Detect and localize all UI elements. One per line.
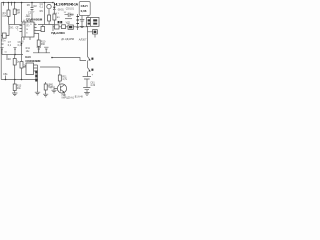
IC DD1 (22, 22, 34, 37)
ground G5 (43, 94, 48, 97)
resistor R8 (13, 9, 16, 15)
capacitor C15 (13, 47, 16, 54)
caps rail mid (33, 52, 50, 54)
svg-text:4-49: 4-49 (90, 85, 95, 87)
svg-text:В1 6-4К: В1 6-4К (75, 96, 84, 98)
svg-text:1М: 1М (33, 5, 36, 8)
node A (8, 2, 10, 4)
resistor R3 (14, 55, 16, 80)
resistor R1 (7, 10, 10, 16)
ground G4 (35, 92, 40, 95)
node B (14, 2, 16, 4)
relay K1 (87, 16, 89, 18)
resistor R13 (14, 80, 16, 85)
connector X2 (37, 65, 39, 92)
wire mid bus (38, 24, 55, 26)
node K (21, 79, 23, 81)
diode VD1 (53, 3, 55, 7)
meter PA1 (88, 27, 93, 57)
wire y27 bus (53, 26, 88, 28)
wire hline54 (2, 54, 23, 56)
svg-text:1 0 0 1: 1 0 0 1 (53, 13, 60, 15)
wire left border (0, 3, 2, 80)
wire R10 down (38, 46, 40, 53)
wire R1 string (8, 3, 10, 25)
box B1 top right (79, 2, 90, 16)
wire top rail (1, 2, 53, 4)
crystal ZQ1 (47, 4, 51, 8)
wire R11 feed (40, 67, 60, 75)
capacitor C5 (65, 13, 74, 17)
wire stub B3 (11, 3, 13, 6)
transistor VT3 (57, 84, 66, 93)
node J (14, 79, 16, 81)
wire emitter left (54, 89, 57, 91)
node D (31, 2, 33, 4)
node I (5, 79, 7, 81)
node F (52, 2, 54, 4)
resistor R7 (48, 15, 51, 21)
wire to R10 (37, 34, 39, 41)
wire string C (21, 3, 23, 55)
wire R11 down (59, 81, 61, 84)
IC DD2 (26, 63, 34, 75)
box VD3 (3, 33, 7, 38)
svg-text:С8-П: С8-П (81, 4, 88, 8)
svg-text:ПД-А2003: ПД-А2003 (51, 31, 65, 35)
box FB (62, 25, 66, 29)
amp box A1 (41, 27, 45, 32)
resistor R10 (37, 40, 40, 46)
contact marks (58, 21, 60, 23)
transistor VT1 (88, 57, 91, 63)
wire under C5 (65, 18, 72, 20)
capacitor C8 (80, 16, 85, 27)
ground G2 (84, 90, 90, 96)
node B3 (11, 2, 13, 4)
box FC (68, 25, 73, 29)
resistor R4 (21, 55, 23, 80)
wire C4 string (44, 3, 46, 25)
node B2 (3, 2, 5, 4)
wire stub B2 (3, 3, 5, 6)
resistor R12 (53, 14, 56, 20)
svg-text:Д1 КД105Б: Д1 КД105Б (61, 38, 74, 41)
wire x53 drop (52, 25, 54, 32)
box FA (55, 25, 60, 29)
wire VD3 left (1, 25, 9, 36)
terminal strip X1 (77, 14, 79, 30)
capacitor C14 (0, 47, 3, 54)
wire bottom rail (1, 79, 38, 81)
capacitor C13 (44, 47, 48, 53)
node G (51, 57, 53, 59)
svg-text:HL1 КИР9246-1А: HL1 КИР9246-1А (54, 3, 78, 7)
capacitor C6 (83, 77, 91, 79)
node C (21, 2, 23, 4)
resistor R11 (58, 75, 61, 81)
wire CD4023 out (23, 66, 26, 68)
svg-text:СТ2: СТ2 (26, 26, 30, 28)
capacitor C2 (31, 3, 34, 23)
svg-text:КИРЦ25-А1: КИРЦ25-А1 (62, 96, 75, 99)
svg-text:VД2: VД2 (66, 23, 71, 25)
wire mid long (52, 58, 86, 61)
transistor VT2 (88, 62, 91, 76)
capacitor C7b (83, 88, 90, 90)
IC right pins (34, 25, 41, 34)
svg-text:ОУ1: ОУ1 (9, 28, 14, 30)
resistor R14 (45, 82, 47, 84)
wire x7 down (6, 55, 8, 61)
svg-text:CD4023ВМ: CD4023ВМ (25, 59, 40, 63)
svg-text:С5 0,01: С5 0,01 (66, 9, 75, 11)
capacitor C12 (37, 47, 41, 53)
svg-text:360: 360 (41, 43, 46, 46)
node C2 (21, 43, 23, 45)
svg-text:CD4060ВМ: CD4060ВМ (26, 17, 43, 21)
wire left bus (9, 24, 22, 26)
svg-text:0,22: 0,22 (18, 44, 23, 47)
IC bottom stubs (24, 37, 30, 40)
svg-text:14: 14 (26, 29, 28, 31)
svg-text:АЛ307: АЛ307 (79, 39, 87, 42)
ground G6 (51, 90, 56, 93)
node E (44, 2, 46, 4)
ground G3 (12, 91, 17, 96)
svg-text:1М: 1М (17, 12, 20, 15)
svg-text:ТОн: ТОн (1, 41, 6, 43)
DD2 right pins (34, 65, 38, 71)
IC left pins (20, 26, 23, 32)
ground G1 (80, 26, 84, 27)
node H (14, 54, 16, 56)
IC top pins (24, 20, 31, 22)
wire R8 string (14, 3, 16, 25)
svg-text:0,06: 0,06 (81, 9, 87, 13)
